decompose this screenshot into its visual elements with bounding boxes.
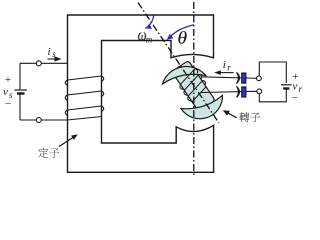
svg-text:+: + [5,74,11,86]
label stator 定子 [38,148,59,158]
slip ring block upper [242,73,246,83]
arrow rotor label [228,113,237,118]
slip ring block lower [242,87,246,97]
axis: vertical dash-dot [193,2,195,176]
terminal: stator bottom [36,118,41,123]
terminal: rotor top [257,76,262,81]
arrow stator label [59,138,73,147]
stator coil turn lines [65,76,104,120]
label theta [178,31,186,44]
rotor pole shoe upper [159,57,205,98]
omega_m arrow (blue arc) [148,15,154,26]
wire: stator top lead [20,62,68,64]
rotor winding [176,68,210,103]
rotor group [159,55,228,128]
wire: vs left rail [19,63,21,89]
wire: stator bottom lead [20,119,68,121]
svg-text:v: v [293,81,298,93]
battery vs [15,89,28,91]
theta arrow (blue arc) [170,25,194,37]
brush symbol lower [237,87,240,97]
svg-text:v: v [3,86,8,98]
arrow is [48,58,57,60]
rotor pole shoe lower [181,85,229,127]
svg-text:r: r [299,84,303,94]
stator core (C-shaped magnetic core with pole faces) [68,15,214,172]
arrow ir [219,72,234,74]
svg-text:−: − [5,98,11,110]
svg-text:i: i [48,46,51,58]
svg-text:−: − [292,92,298,104]
battery vr [281,84,292,86]
coil right hooks [102,76,104,82]
terminal: rotor bottom [257,89,262,94]
wire: rotor bottom lead [201,91,257,92]
axis: rotor diagonal dash-dot [138,3,219,124]
wire: rotor top lead [201,77,257,79]
label rotor 轉子 [239,112,260,122]
brush symbol upper [237,73,240,83]
svg-text:i: i [223,59,226,71]
svg-text:m: m [146,34,153,44]
rotor shaft [172,61,215,112]
terminal: stator top [36,61,41,66]
vr loop wiring [259,62,286,102]
coil left hooks [65,80,67,86]
svg-text:r: r [227,63,231,73]
label omega_m [138,32,146,40]
